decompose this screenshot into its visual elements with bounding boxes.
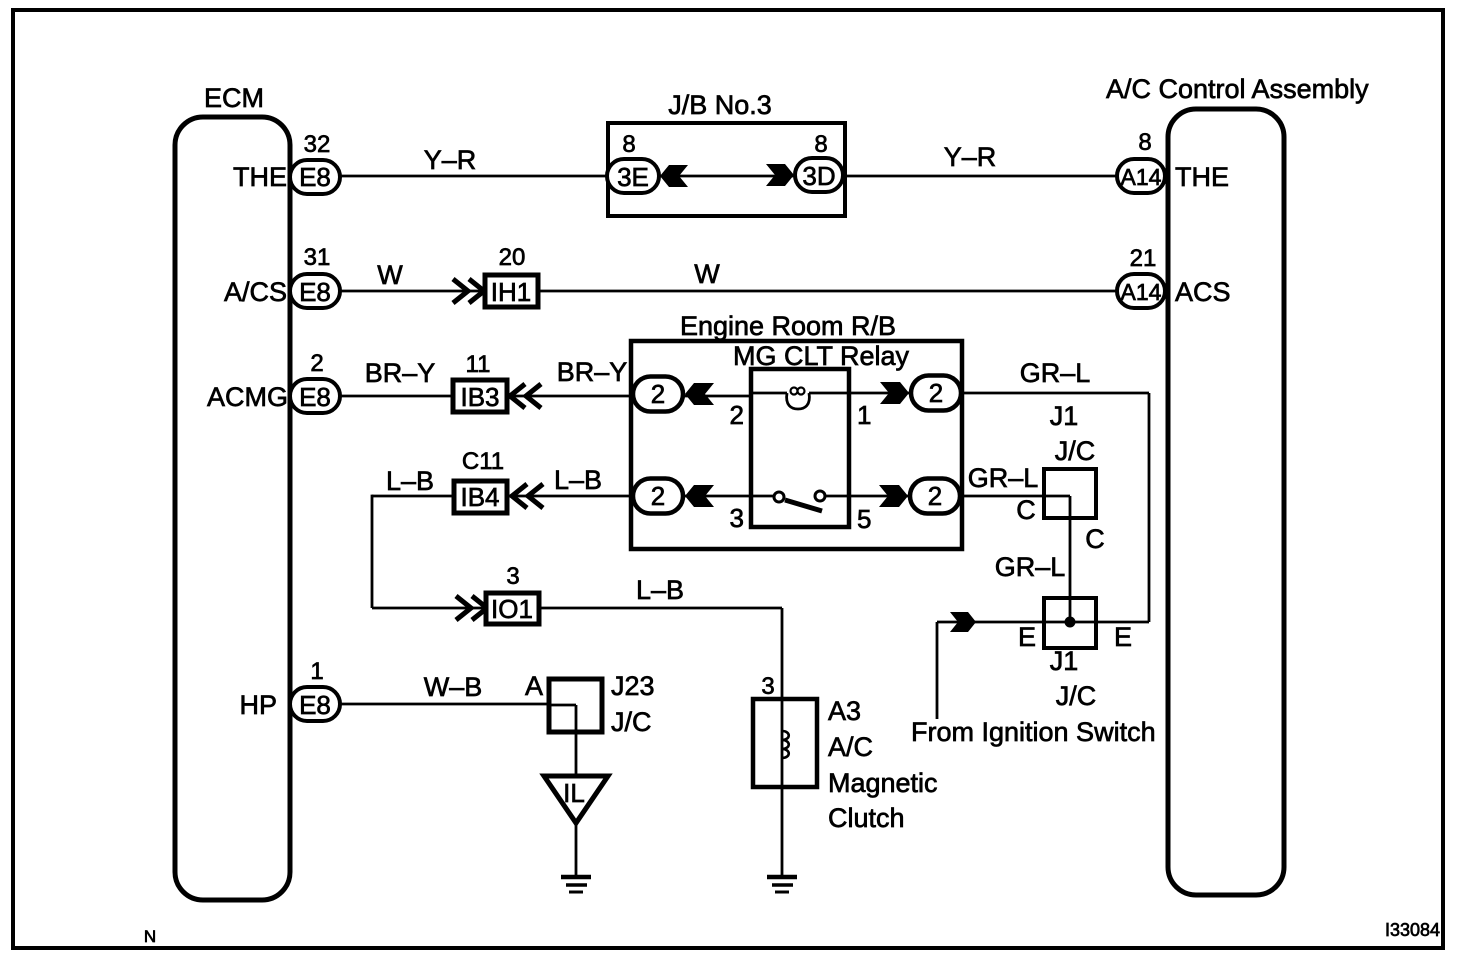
svg-text:J/C: J/C [611,707,652,737]
svg-text:W: W [377,260,403,290]
svg-text:IL: IL [563,778,585,808]
svg-text:W–B: W–B [424,672,483,702]
svg-text:8: 8 [622,131,635,158]
svg-text:Magnetic: Magnetic [828,768,938,798]
svg-text:HP: HP [239,690,277,720]
svg-text:L–B: L–B [386,466,434,496]
svg-text:2: 2 [310,350,323,377]
svg-text:IH1: IH1 [491,277,531,307]
svg-text:N: N [144,927,156,946]
svg-text:J23: J23 [611,671,655,701]
svg-text:IB3: IB3 [460,382,499,412]
svg-text:GR–L: GR–L [968,463,1039,493]
svg-text:A14: A14 [1121,279,1162,305]
svg-text:32: 32 [304,131,331,158]
svg-text:3D: 3D [802,161,835,191]
svg-text:8: 8 [1138,129,1151,156]
svg-text:A: A [525,671,543,701]
svg-text:E8: E8 [299,382,331,412]
svg-text:3: 3 [730,503,744,533]
svg-text:BR–Y: BR–Y [557,357,628,387]
svg-text:J/C: J/C [1056,681,1097,711]
svg-text:Y–R: Y–R [424,145,477,175]
svg-text:ACMG: ACMG [207,382,288,412]
svg-text:A3: A3 [828,696,861,726]
svg-text:MG CLT Relay: MG CLT Relay [733,341,910,371]
svg-text:A/C: A/C [828,732,873,762]
svg-text:GR–L: GR–L [995,552,1066,582]
svg-text:1: 1 [310,658,323,685]
svg-text:1: 1 [857,400,871,430]
svg-text:E: E [1018,622,1036,652]
svg-text:From Ignition Switch: From Ignition Switch [911,717,1156,747]
svg-text:5: 5 [857,504,871,534]
svg-text:3: 3 [761,673,774,700]
svg-text:8: 8 [814,131,827,158]
svg-text:THE: THE [1175,162,1229,192]
svg-text:GR–L: GR–L [1020,358,1091,388]
svg-text:2: 2 [651,481,665,511]
svg-text:A14: A14 [1121,164,1162,190]
svg-text:THE: THE [233,162,287,192]
svg-text:2: 2 [928,481,942,511]
svg-text:E: E [1114,622,1132,652]
svg-text:W: W [694,259,720,289]
svg-text:Y–R: Y–R [944,142,997,172]
svg-text:BR–Y: BR–Y [365,358,436,388]
svg-text:J1: J1 [1050,646,1079,676]
svg-text:11: 11 [466,351,491,378]
svg-text:L–B: L–B [554,465,602,495]
svg-text:2: 2 [730,400,744,430]
svg-text:21: 21 [1130,245,1157,272]
svg-text:ACS: ACS [1175,277,1231,307]
svg-text:C11: C11 [462,448,504,475]
svg-text:2: 2 [929,378,943,408]
svg-text:E8: E8 [299,162,331,192]
svg-text:J1: J1 [1050,401,1079,431]
svg-text:20: 20 [499,244,526,271]
svg-text:3E: 3E [617,162,649,192]
svg-text:L–B: L–B [636,575,684,605]
svg-text:Clutch: Clutch [828,803,905,833]
svg-text:31: 31 [304,244,331,271]
svg-text:E8: E8 [299,277,331,307]
svg-text:IB4: IB4 [460,482,499,512]
svg-text:A/CS: A/CS [224,277,287,307]
svg-text:J/C: J/C [1055,436,1096,466]
svg-text:A/C Control Assembly: A/C Control Assembly [1106,74,1369,104]
svg-text:2: 2 [651,379,665,409]
svg-text:E8: E8 [299,690,331,720]
svg-text:J/B No.3: J/B No.3 [668,90,772,120]
svg-text:I33084: I33084 [1385,920,1440,940]
svg-text:3: 3 [506,563,519,590]
svg-text:ECM: ECM [204,83,264,113]
svg-text:Engine Room R/B: Engine Room R/B [680,311,896,341]
svg-text:C: C [1085,524,1105,554]
svg-text:C: C [1016,495,1036,525]
svg-text:IO1: IO1 [491,594,533,624]
